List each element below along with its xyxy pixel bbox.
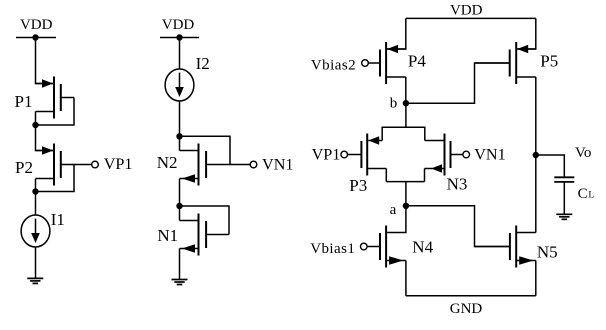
VDD rail (right) bbox=[406, 17, 536, 19]
terminal VN1 (middle) bbox=[250, 161, 257, 168]
wire node b down to pair sources split bbox=[405, 103, 407, 127]
label CL bbox=[578, 186, 595, 202]
wire N2 source down bbox=[179, 179, 181, 207]
svg-text:Vbias2: Vbias2 bbox=[311, 58, 356, 74]
wire N1 source to ground bbox=[179, 249, 181, 280]
terminal VP1 (right) bbox=[341, 151, 348, 158]
svg-text:I2: I2 bbox=[196, 54, 210, 73]
wire VDD rail left end down to P4 source bbox=[387, 18, 406, 49]
node Vo junction bbox=[533, 152, 539, 158]
transistor P2 (PMOS) bbox=[36, 144, 92, 186]
wire VDD rail right end down to P5 source bbox=[517, 18, 536, 49]
wire VDD to P1 source bbox=[36, 38, 54, 84]
wire node down to N1 drain bbox=[179, 206, 181, 221]
svg-text:VDD: VDD bbox=[450, 2, 483, 18]
wire N1 gate-drain tie bbox=[180, 206, 230, 235]
svg-text:P5: P5 bbox=[540, 52, 558, 71]
wire N4 source down to GND rail bbox=[405, 261, 407, 296]
wire P3 drain down to merge rail bbox=[385, 169, 387, 182]
transistor P4 (PMOS) bbox=[369, 42, 406, 84]
wire N5 drain up to output rail bbox=[516, 232, 536, 234]
wire source split rail bbox=[382, 127, 425, 140]
transistor N5 (NMOS) bbox=[475, 226, 536, 268]
svg-text:P2: P2 bbox=[15, 158, 33, 177]
wire node b to P5 gate bbox=[406, 63, 510, 103]
VDD rail (left) bbox=[16, 37, 56, 39]
svg-text:N2: N2 bbox=[157, 153, 178, 172]
svg-text:P3: P3 bbox=[349, 176, 367, 195]
transistor N2 (NMOS) bbox=[180, 144, 251, 186]
wire node to I1 bbox=[35, 192, 37, 216]
transistor P5 (PMOS) bbox=[475, 42, 536, 84]
wire node down to N2 drain bbox=[179, 136, 181, 150]
transistor P1 (PMOS) bbox=[36, 77, 75, 119]
wire node to P2 source bbox=[36, 125, 54, 151]
wire P1 drain down bbox=[35, 112, 37, 126]
svg-text:VN1: VN1 bbox=[262, 155, 293, 173]
terminal VN1 (right) bbox=[463, 151, 470, 158]
transistor P3 (PMOS) bbox=[348, 134, 387, 176]
svg-text:C: C bbox=[578, 186, 588, 202]
svg-text:VDD: VDD bbox=[162, 17, 195, 33]
wire drain merge rail bbox=[386, 181, 424, 183]
VDD rail (middle) bbox=[160, 37, 199, 39]
wire N5 source down to GND rail bbox=[535, 261, 537, 296]
terminal Vbias2 bbox=[362, 60, 369, 67]
svg-text:GND: GND bbox=[450, 301, 483, 317]
terminal VP1 (left) bbox=[92, 161, 99, 168]
node: N2 source / N1 drain junction bbox=[176, 203, 182, 209]
ground bbox=[27, 278, 43, 283]
svg-text:N3: N3 bbox=[447, 174, 468, 193]
svg-text:Vo: Vo bbox=[575, 145, 591, 161]
current source I1 bbox=[21, 215, 50, 247]
wire capacitor to ground bbox=[563, 182, 565, 214]
transistor N3 (NMOS) bbox=[425, 134, 463, 176]
wire I1 to ground bbox=[35, 247, 37, 279]
svg-text:VN1: VN1 bbox=[474, 145, 505, 163]
wire merge rail down to node a bbox=[405, 182, 407, 206]
svg-text:VDD: VDD bbox=[20, 17, 53, 33]
node: P2 drain / I1 junction bbox=[32, 188, 38, 194]
wire Vo node to capacitor bbox=[536, 155, 565, 177]
wire I2 to N2 drain node bbox=[179, 101, 181, 137]
node: VDD junction (middle) bbox=[176, 34, 182, 40]
wire P2 gate-drain tie bbox=[36, 165, 75, 192]
node a bbox=[403, 203, 409, 209]
node b bbox=[403, 100, 409, 106]
node: P1 drain / P2 source junction bbox=[32, 122, 38, 128]
GND rail bbox=[406, 295, 536, 297]
transistor N4 (NMOS) bbox=[368, 226, 406, 268]
svg-text:a: a bbox=[390, 202, 397, 218]
wire node a down to N4 drain bbox=[387, 206, 406, 233]
svg-text:VP1: VP1 bbox=[104, 155, 133, 173]
svg-text:N4: N4 bbox=[412, 238, 433, 257]
svg-text:I1: I1 bbox=[51, 210, 65, 229]
svg-text:P4: P4 bbox=[408, 52, 426, 71]
svg-text:N1: N1 bbox=[157, 226, 178, 245]
ground bbox=[172, 280, 188, 285]
wire node a to N5 gate bbox=[406, 206, 510, 247]
current source I2 bbox=[165, 69, 194, 101]
svg-text:P1: P1 bbox=[15, 92, 33, 111]
wire N3 source down to merge rail bbox=[424, 169, 426, 182]
svg-text:Vbias1: Vbias1 bbox=[310, 241, 355, 257]
wire P5 drain down to N5 drain (output rail) bbox=[535, 77, 537, 233]
svg-text:L: L bbox=[588, 191, 594, 201]
wire P2 drain down bbox=[35, 179, 37, 192]
ground bbox=[556, 214, 572, 219]
svg-text:VP1: VP1 bbox=[312, 146, 341, 164]
capacitor CL bbox=[554, 177, 574, 182]
wire P1 gate-drain tie bbox=[36, 98, 75, 126]
svg-text:b: b bbox=[390, 95, 398, 111]
wire N2 gate-drain tie bbox=[180, 136, 231, 164]
wire VDD to I2 bbox=[179, 38, 181, 70]
terminal Vbias1 bbox=[361, 243, 368, 250]
node: I2 / N2 drain-gate junction bbox=[176, 133, 182, 139]
node: VDD junction (left) bbox=[32, 34, 38, 40]
transistor N1 (NMOS) bbox=[180, 214, 230, 256]
svg-text:N5: N5 bbox=[537, 243, 558, 262]
wire P4 drain down to node b bbox=[405, 77, 407, 103]
